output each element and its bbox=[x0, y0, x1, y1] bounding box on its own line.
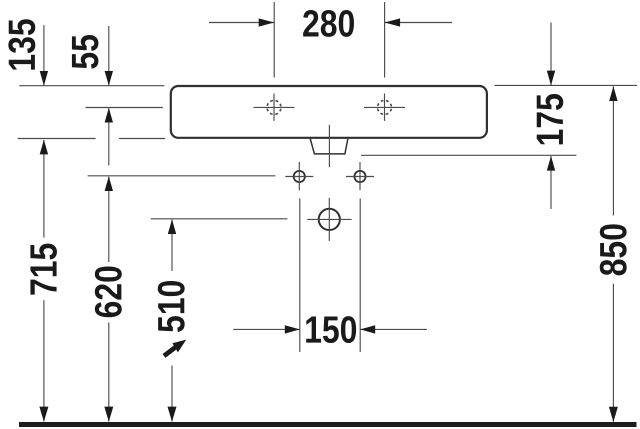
arrowhead: 280 right pointing left bbox=[385, 18, 401, 26]
faucet hole right crosshair bbox=[364, 94, 405, 121]
wire: reference line at drain bottom level bbox=[361, 154, 576, 156]
floor line bbox=[19, 422, 637, 427]
wire: 175 lower arrow shaft bbox=[550, 156, 552, 209]
arrowhead: 715 pointing down at floor bbox=[39, 407, 48, 422]
arrowhead: 135 pointing down bbox=[40, 71, 48, 86]
wire: 150 extension line left bbox=[299, 199, 301, 353]
wire: 135 arrow shaft upper bbox=[43, 25, 45, 85]
drain spigot trapezoid bbox=[310, 139, 348, 154]
mounting hole left bbox=[285, 162, 313, 190]
wire: 715 dimension line lower part bbox=[43, 300, 45, 421]
arrowhead: 715 pointing up bbox=[40, 140, 48, 155]
wire: reference line at basin top left bbox=[19, 85, 164, 87]
faucet hole left crosshair bbox=[254, 94, 295, 121]
wire: 175 arrow shaft upper bbox=[550, 23, 552, 86]
dimension label 620 bbox=[95, 266, 122, 317]
wire: reference line at basin bottom right segment bbox=[119, 138, 165, 140]
arrowhead: 150 right pointing left bbox=[360, 325, 375, 333]
wire: 150 dimension line right segment bbox=[360, 328, 427, 330]
drain centerline bbox=[328, 125, 330, 167]
dimension label 175 bbox=[537, 94, 564, 144]
wire: 620 dimension line lower part bbox=[108, 322, 110, 421]
dimension label 150 bbox=[306, 316, 356, 343]
arrowhead: 280 left pointing right bbox=[259, 18, 275, 26]
arrowhead: 510 pointing down at floor bbox=[168, 407, 177, 422]
wire: 55 arrow shaft upper bbox=[108, 26, 110, 85]
arrowhead: 55 pointing down bbox=[105, 71, 113, 86]
dimension label 135 bbox=[8, 19, 35, 69]
dimension label 510 bbox=[158, 281, 185, 332]
arrowhead: 175 pointing down bbox=[547, 71, 555, 86]
drain hole big circle bbox=[307, 198, 351, 241]
wire: 280 dimension line right segment bbox=[385, 22, 452, 24]
arrowhead: 55 pointing up bbox=[105, 108, 113, 123]
wire: top extension line from right faucet hole bbox=[384, 2, 386, 78]
arrowhead: 620 pointing up bbox=[105, 176, 113, 191]
dimension label 715 bbox=[30, 244, 57, 295]
wire: reference line at faucet hole level bbox=[86, 107, 163, 109]
wire: 55 lower arrow shaft bbox=[108, 108, 110, 165]
wire: 510 dimension line upper part bbox=[171, 220, 173, 271]
wire: top extension line from left faucet hole bbox=[273, 2, 275, 78]
washbasin outline bbox=[171, 86, 487, 138]
wire: 850 dimension line lower part bbox=[612, 284, 614, 422]
dimension label 280 bbox=[303, 10, 354, 37]
view direction arrow near 510 bbox=[164, 340, 186, 356]
wire: 280 dimension line left segment bbox=[209, 22, 274, 24]
wire: 715 dimension line upper part bbox=[43, 140, 45, 238]
arrowhead: 175 pointing up bbox=[547, 156, 555, 171]
dimension label 55 bbox=[72, 35, 99, 69]
wire: reference line at basin bottom left segment bbox=[18, 138, 96, 140]
mounting hole right bbox=[346, 162, 374, 190]
wire: 620 dimension line upper part bbox=[108, 177, 110, 262]
arrowhead: 510 pointing up bbox=[168, 219, 176, 234]
dimension label 850 bbox=[600, 224, 627, 275]
wire: 150 extension line right bbox=[359, 199, 361, 353]
arrowhead: 850 pointing down at floor bbox=[609, 407, 618, 422]
arrowhead: 150 left pointing right bbox=[285, 325, 300, 333]
wire: 850 dimension line upper part bbox=[612, 86, 614, 215]
wire: reference line at basin top right bbox=[494, 84, 637, 86]
arrowhead: 850 pointing up bbox=[609, 86, 617, 101]
arrowhead: 620 pointing down at floor bbox=[104, 407, 113, 422]
wire: 510 dimension line lower part bbox=[171, 366, 173, 422]
wire: 150 dimension line left segment bbox=[233, 328, 299, 330]
wire: reference line at drain hole level bbox=[151, 218, 288, 220]
wire: reference line at mounting hole level bbox=[88, 175, 276, 177]
